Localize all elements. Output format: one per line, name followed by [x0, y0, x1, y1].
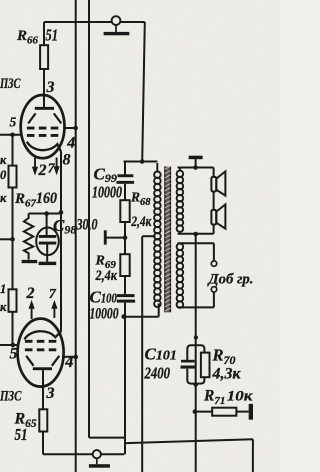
capacitor C100 bottom plate — [117, 300, 135, 303]
tube U2 control grid pin 5 — [25, 340, 57, 343]
tube U1 heater pin 7 arrow — [56, 158, 58, 168]
transformer secondary winding 1 (speakers) — [177, 168, 184, 234]
wire rail screen-grid supply — [75, 0, 77, 472]
tube U2 anode plate pin 3 — [33, 367, 52, 370]
resistor R66 51 — [40, 45, 48, 69]
tube U1 beam plates — [28, 113, 61, 123]
wire R69 to C100 — [124, 276, 126, 294]
capacitor C101 bottom plate — [181, 366, 196, 369]
resistor R70 4,3k — [201, 353, 210, 378]
wire C101-R70 bottom bracket — [187, 369, 204, 384]
wire center tap drop — [141, 236, 143, 472]
wire secondary2 top to terminal — [178, 243, 214, 260]
wire rail feedback left — [88, 0, 90, 438]
loudspeaker 2 — [211, 204, 225, 228]
wire node to primary bottom — [124, 304, 159, 317]
wire C99 to R68 — [124, 184, 126, 200]
wire R71 right lead — [236, 411, 248, 413]
terminal T-bar of R71 — [249, 404, 253, 420]
capacitor C99 top plate — [118, 174, 134, 177]
tube U2 beam plates — [26, 356, 59, 366]
wire common cathode line — [60, 152, 62, 332]
wire C100 down long — [124, 303, 126, 455]
capacitor C100 top plate — [117, 294, 135, 297]
resistor R67 160 zigzag — [24, 214, 33, 260]
wire anode tube1 top run — [44, 21, 145, 23]
wire grid line lower segment — [12, 312, 14, 345]
terminal with ground at top (B+) — [112, 16, 121, 25]
node R68-R69 tap — [123, 235, 128, 240]
transformer primary winding — [154, 163, 161, 307]
terminal with ground at bottom — [93, 450, 101, 458]
wire R71 left lead — [196, 411, 213, 413]
wire C98 bottom lead — [46, 245, 48, 262]
wire grid line upper segment — [12, 135, 14, 166]
resistor grid-stopper upper — [9, 166, 17, 188]
wire speaker2 bottom to secondary1 — [178, 225, 214, 234]
node speaker bottom junction — [193, 232, 198, 237]
wire R65 bottom lead — [42, 432, 44, 455]
tube U1 anode plate pin 3 — [35, 107, 54, 110]
wire tube2 anode lead to R65 — [42, 370, 44, 409]
wire speaker junction drop — [195, 234, 197, 472]
ground bar under R67 — [22, 260, 38, 263]
wire bottom-left run to R65 — [43, 453, 124, 455]
tube U1 heater pin 2 arrow — [34, 157, 36, 169]
wire grid tube1 from left edge — [0, 134, 21, 136]
tube U2 heater pin 2 arrow — [31, 308, 33, 319]
node grid2 junction — [11, 343, 16, 348]
capacitor C101 top plate — [181, 360, 195, 363]
tube U1 cathode pin 8 — [27, 142, 61, 152]
tube U2 screen grid — [25, 348, 57, 351]
node R71 tap — [193, 409, 198, 414]
terminal Dob gr upper — [211, 261, 216, 266]
resistor grid-stopper lower — [9, 289, 17, 312]
resistor R65 51 — [39, 409, 47, 431]
node C101 bottom — [193, 382, 198, 387]
tube U1 screen grid — [27, 127, 59, 130]
tube U2 heater pin 7 arrow — [53, 308, 55, 318]
wire grid line middle segment — [12, 188, 14, 290]
wire secondary2 bottom to terminal — [178, 292, 214, 307]
node C98 tap — [44, 211, 49, 216]
loudspeaker 1 — [211, 171, 225, 195]
wire top run to primary — [124, 161, 158, 163]
wire R68 to R69 — [124, 222, 126, 254]
transformer core — [165, 166, 171, 312]
node screen1 on rail — [73, 126, 78, 131]
wire grid tube2 from left edge — [0, 344, 18, 346]
node cathode RC — [59, 210, 64, 215]
node C100 to primary bottom — [121, 314, 126, 319]
wire C101-R70 top bracket — [187, 345, 204, 360]
terminal T-bar of tap — [104, 230, 107, 244]
resistor R69 2,4k — [120, 254, 129, 276]
wire C99 top lead — [124, 162, 126, 176]
capacitor C99 bottom plate — [117, 181, 135, 184]
wire rail2 bottom corner to node — [89, 437, 124, 439]
resistor R68 2,4k — [120, 200, 129, 222]
terminal Dob gr lower — [211, 287, 216, 292]
wire C98 top lead — [46, 214, 48, 236]
node anode1 to primary — [140, 159, 145, 164]
wire T-tap left from R68-R69 node — [107, 237, 126, 239]
wire R66 top lead — [43, 22, 45, 45]
wire screen tube2 pin 4 to rail — [64, 356, 76, 358]
ground bar above secondary1 — [189, 156, 203, 160]
wire secondary1 top to speakers — [178, 168, 214, 178]
wire ground stub secondary1 — [195, 159, 197, 167]
transformer secondary winding 2 (extra speaker) — [177, 243, 184, 308]
wire primary center tap — [142, 235, 155, 237]
node grid mid junction — [10, 237, 15, 242]
node on speaker line — [194, 335, 198, 339]
capacitor C98 30,0 electrolytic — [36, 228, 59, 256]
ground bar under C98 — [39, 262, 57, 265]
wire mid tap from left edge — [0, 238, 13, 240]
node screen2 on rail — [73, 355, 78, 360]
node ground stub secondary1 — [193, 165, 198, 170]
wire screen tube1 pin 4 to rail — [64, 127, 76, 129]
wire cathode RC top — [29, 213, 61, 215]
resistor R71 10k — [212, 408, 236, 416]
wire bottom-right run — [124, 439, 253, 472]
tube U1 ПЗС envelope — [21, 95, 65, 158]
node grid1 junction — [10, 133, 15, 138]
wire R66 bottom lead to tube1 anode pin 3 — [43, 69, 45, 107]
tube U2 ПЗС envelope — [18, 319, 64, 387]
wire between speakers — [213, 192, 215, 211]
wire anode tube1 drop to transformer — [142, 22, 145, 162]
tube U1 control grid pin 5 — [27, 134, 59, 137]
tube U2 cathode pin 8 — [24, 331, 61, 339]
